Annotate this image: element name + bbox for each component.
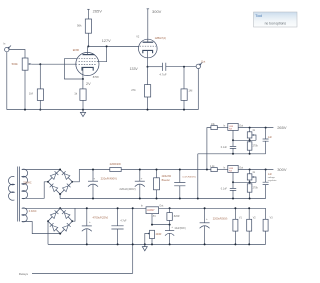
svg-text:Out: Out bbox=[201, 60, 205, 64]
node adj3 bbox=[151, 224, 153, 226]
node 820R tap bbox=[169, 207, 171, 209]
svg-text:1M: 1M bbox=[188, 88, 193, 92]
svg-text:1M: 1M bbox=[29, 91, 34, 95]
node trim2 bottom bbox=[249, 181, 251, 183]
svg-text:0.1uF: 0.1uF bbox=[221, 146, 228, 149]
wire cathode to coupling cap bbox=[148, 66, 163, 68]
wire jack to pot bbox=[9, 50, 25, 59]
label 300V out bbox=[277, 167, 287, 172]
heater ground rail bbox=[48, 243, 266, 245]
block1 ground riser bbox=[197, 154, 199, 199]
capacitor C12 2200uF 50V bbox=[200, 207, 228, 245]
svg-text:Out: Out bbox=[239, 166, 243, 169]
svg-text:no tool options: no tool options bbox=[265, 22, 287, 26]
node block2 0.1uF ground bbox=[232, 198, 234, 200]
node out1 cap bbox=[265, 127, 267, 129]
svg-text:220uF(400V): 220uF(400V) bbox=[101, 177, 117, 181]
regulator block 1 riser bbox=[207, 128, 211, 170]
trimmer VR3 1k bbox=[247, 170, 256, 183]
node 240R ground bbox=[151, 243, 153, 245]
label 300V supply bbox=[147, 9, 162, 14]
resistor R15 heater dropper V3 bbox=[263, 208, 273, 244]
svg-text:265V: 265V bbox=[277, 125, 287, 130]
svg-text:4.7uF: 4.7uF bbox=[120, 220, 127, 223]
resistor R4 27k cathode load bbox=[131, 67, 151, 110]
resistor R12 820R bbox=[167, 208, 180, 224]
resistor R2 1M grid leak bbox=[29, 64, 44, 109]
svg-text:500k: 500k bbox=[12, 62, 19, 66]
wire pot bottom to ground rail bbox=[24, 70, 26, 109]
heater out rail bbox=[159, 207, 266, 209]
svg-text:270k: 270k bbox=[253, 186, 259, 189]
svg-text:2200uF(50V): 2200uF(50V) bbox=[213, 218, 228, 221]
svg-text:240R: 240R bbox=[156, 233, 162, 236]
wire secondary1 top to bridge1 bbox=[22, 169, 60, 171]
wire bridge2 minus to bottom rail bbox=[47, 221, 49, 244]
svg-text:220uF(400V): 220uF(400V) bbox=[119, 187, 135, 191]
tube V2 triode 12BH7 bbox=[136, 36, 166, 67]
Tool panel bbox=[254, 12, 298, 27]
resistor R9 270k bbox=[247, 140, 258, 154]
label 127V bbox=[102, 39, 111, 43]
potentiometer VR1 500k bbox=[12, 58, 32, 70]
svg-text:0.1uF: 0.1uF bbox=[221, 187, 228, 190]
node 1M ground2 bbox=[183, 109, 185, 111]
node out2 cap bbox=[265, 169, 267, 171]
ground symbol heater bbox=[142, 244, 147, 250]
wire 300V to V2 plate bbox=[147, 9, 149, 42]
svg-text:+: + bbox=[93, 177, 95, 181]
regulator U3 LM317 bbox=[141, 204, 164, 213]
wire cap to out jack bbox=[166, 66, 196, 68]
resistor R10 1.1k block2 input bbox=[210, 165, 217, 172]
svg-text:6.3VAC: 6.3VAC bbox=[29, 210, 37, 213]
svg-text:2V: 2V bbox=[86, 82, 91, 86]
svg-text:1.1k: 1.1k bbox=[210, 165, 215, 168]
node trimmer wiper ground bbox=[144, 243, 146, 245]
wire secondary1 bottom to bridge1 left bbox=[22, 182, 48, 199]
wire U1 adj bbox=[233, 130, 256, 140]
wire regulator2 out bbox=[238, 169, 273, 171]
node 1M ground bbox=[39, 109, 41, 111]
svg-text:133V: 133V bbox=[130, 67, 139, 71]
node out2 trimmer bbox=[249, 169, 251, 171]
svg-text:voltage: voltage bbox=[268, 176, 276, 179]
HV rail after R6 bbox=[121, 169, 211, 171]
svg-text:300V: 300V bbox=[152, 9, 162, 14]
node 820R bottom bbox=[169, 224, 171, 226]
resistor R11 270k bbox=[247, 182, 258, 198]
regulator U2 LR8 bbox=[223, 165, 243, 172]
resistor R14 heater dropper V2 bbox=[247, 207, 257, 245]
svg-text:230VAC: 230VAC bbox=[23, 181, 32, 184]
svg-text:12BH7(A): 12BH7(A) bbox=[155, 36, 167, 40]
svg-text:0.47uF(630V): 0.47uF(630V) bbox=[182, 177, 196, 179]
svg-text:LM317: LM317 bbox=[147, 209, 155, 212]
resistor R3 1k cathode bbox=[74, 79, 86, 110]
capacitor C11 10uF 50V bbox=[165, 225, 186, 246]
resistor R1 56k plate load bbox=[77, 9, 92, 46]
node V2 cathode bbox=[147, 66, 149, 68]
node 27k ground bbox=[147, 109, 149, 111]
capacitor C2 220uF 400V bbox=[88, 169, 117, 200]
svg-text:Bleeder: Bleeder bbox=[162, 179, 170, 182]
node HV rail to regulators bbox=[206, 169, 208, 171]
resistor R7 220k bleeder bbox=[154, 169, 172, 200]
capacitor C1 4.7uF coupling bbox=[159, 63, 166, 77]
wire jack ground bbox=[6, 52, 8, 110]
ground symbol bbox=[80, 110, 85, 117]
wire adj U3 bbox=[152, 214, 170, 225]
transformer secondary 2 bbox=[22, 208, 37, 222]
label 265V out bbox=[277, 125, 287, 130]
capacitor C7 0.1uF bbox=[221, 182, 236, 198]
wire U2 adj bbox=[233, 172, 256, 182]
svg-text:220R/2W: 220R/2W bbox=[110, 162, 122, 166]
transformer secondary 1 bbox=[22, 169, 32, 199]
label 265V supply bbox=[87, 9, 102, 14]
svg-text:+: + bbox=[206, 217, 208, 221]
ground rail top section bbox=[7, 109, 199, 111]
svg-text:220k/2W: 220k/2W bbox=[162, 175, 172, 178]
relay wire bbox=[32, 272, 133, 274]
node block2 270k ground bbox=[249, 198, 251, 200]
bridge rectifier BR2 bbox=[47, 207, 73, 234]
wire bridge1 minus to ground rail bbox=[59, 194, 61, 198]
svg-text:27k: 27k bbox=[131, 88, 136, 92]
capacitor C10 4.7uF bbox=[111, 207, 127, 245]
resistor R5 1M output load bbox=[181, 67, 193, 110]
node wiper junction bbox=[39, 63, 41, 65]
svg-text:1uF: 1uF bbox=[268, 136, 273, 139]
wire pot wiper to V1 grid bbox=[31, 63, 77, 65]
capacitor C5 0.1uF bbox=[221, 140, 236, 154]
svg-text:Tool: Tool bbox=[255, 14, 262, 18]
svg-text:56k: 56k bbox=[77, 23, 82, 27]
resistor R8 10k bbox=[211, 123, 217, 130]
capacitor C4 0.47uF 630V bbox=[174, 169, 196, 200]
wire plate to V2 grid bbox=[88, 45, 138, 47]
svg-text:1uF: 1uF bbox=[268, 173, 273, 176]
svg-text:+: + bbox=[141, 177, 143, 181]
resistor R6 220R 2W bbox=[110, 162, 122, 171]
node adj2 bbox=[232, 181, 234, 183]
wire regulator1 out bbox=[238, 127, 273, 129]
capacitor C9 4700uF 25V bbox=[82, 207, 108, 245]
svg-text:Out: Out bbox=[239, 124, 243, 127]
output jack J2 bbox=[196, 60, 205, 69]
svg-text:127V: 127V bbox=[102, 39, 111, 43]
wire to regulator U1 bbox=[217, 127, 228, 129]
input jack J1 bbox=[3, 42, 11, 52]
node 1M out junction bbox=[183, 66, 185, 68]
svg-text:Out: Out bbox=[159, 204, 163, 207]
node V1 plate 127V bbox=[87, 45, 89, 47]
wire out jack ground bbox=[197, 69, 199, 110]
svg-text:regulator: regulator bbox=[268, 179, 277, 182]
svg-text:10uF(50V): 10uF(50V) bbox=[174, 227, 185, 230]
svg-text:4.7uF: 4.7uF bbox=[159, 72, 166, 76]
node block1 ground bbox=[197, 198, 199, 200]
svg-text:265V: 265V bbox=[93, 9, 103, 14]
wire bridge2 plus to rail bbox=[72, 208, 75, 221]
capacitor C8 1uF output bbox=[263, 170, 277, 199]
transformer core bbox=[18, 167, 20, 222]
svg-text:300V: 300V bbox=[277, 167, 287, 172]
svg-text:Relays: Relays bbox=[19, 272, 29, 276]
bridge rectifier BR1 bbox=[47, 169, 73, 196]
node out1 trimmer bbox=[249, 127, 251, 129]
svg-text:+: + bbox=[89, 220, 91, 224]
label 133V bbox=[130, 67, 139, 71]
node screen junction bbox=[106, 45, 108, 47]
node cathode resistor ground bbox=[82, 109, 84, 111]
wire secondary2 bottom to bridge2 bbox=[22, 222, 60, 234]
trimmer VR4 240R bbox=[145, 230, 162, 244]
node pot ground bbox=[24, 109, 26, 111]
svg-text:EF86: EF86 bbox=[73, 48, 80, 52]
HV ground rail bbox=[60, 198, 266, 200]
label Relays bbox=[19, 272, 29, 276]
node adj1 bbox=[232, 139, 234, 141]
tube V1 pentode EF86 bbox=[73, 46, 99, 79]
label 2V bbox=[86, 82, 91, 86]
capacitor C6 1uF output bbox=[263, 128, 273, 154]
svg-text:4700uF(25V): 4700uF(25V) bbox=[93, 215, 109, 219]
block1 ground rail bbox=[198, 153, 266, 155]
svg-text:270k: 270k bbox=[253, 144, 259, 147]
transformer T1 primary bbox=[9, 176, 15, 200]
wire to regulator U2 bbox=[217, 169, 228, 171]
wire bridge1 plus to HV rail bbox=[72, 170, 110, 182]
resistor R13 heater dropper V1 bbox=[233, 207, 243, 245]
wire screen grid to plate node bbox=[97, 46, 107, 61]
node cathode junction bbox=[82, 78, 84, 80]
regulator U1 LR8 bbox=[223, 123, 243, 130]
capacitor C3 220uF 400V second bbox=[119, 169, 144, 200]
node trim1 bottom bbox=[249, 139, 251, 141]
svg-text:8708: 8708 bbox=[93, 75, 99, 79]
heater AC rail bbox=[22, 207, 146, 209]
svg-text:820R: 820R bbox=[174, 215, 180, 218]
trimmer VR2 1k bbox=[247, 128, 256, 141]
relay riser bbox=[132, 207, 134, 273]
wire suppressor grid to cathode bbox=[64, 59, 83, 79]
